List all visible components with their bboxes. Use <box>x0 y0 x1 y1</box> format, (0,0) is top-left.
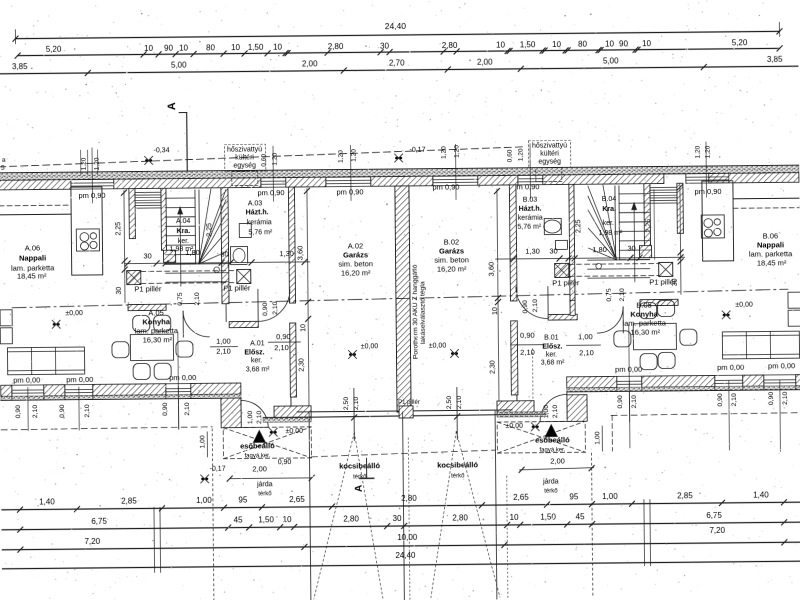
svg-text:A: A <box>166 102 178 110</box>
svg-text:2,25: 2,25 <box>206 223 213 237</box>
svg-text:2,10: 2,10 <box>579 348 594 357</box>
bottom wall left insulation <box>1 394 241 400</box>
svg-text:2,65: 2,65 <box>513 493 529 502</box>
kitchen chairs right <box>614 331 631 347</box>
level marker garage right <box>450 349 458 357</box>
carport dotted edge right2 <box>507 476 508 599</box>
svg-text:1,20: 1,20 <box>81 157 88 170</box>
svg-text:hőszivattyú: hőszivattyú <box>227 146 262 153</box>
entry door arc right <box>540 394 567 421</box>
svg-text:kültéri: kültéri <box>235 154 254 161</box>
svg-text:egység: egység <box>538 158 561 165</box>
svg-text:pm 0,90: pm 0,90 <box>512 182 539 191</box>
svg-text:-0,17: -0,17 <box>210 466 226 473</box>
svg-text:1,20: 1,20 <box>338 150 345 163</box>
svg-text:±0,00: ±0,00 <box>735 302 753 309</box>
armchairs left <box>0 310 12 326</box>
porch wall L right <box>567 395 587 422</box>
svg-text:2,25: 2,25 <box>115 222 122 236</box>
svg-text:30: 30 <box>393 514 403 523</box>
beam dashed left <box>141 270 237 273</box>
svg-text:2,25: 2,25 <box>575 219 582 233</box>
svg-text:pm 0,00: pm 0,00 <box>66 375 93 384</box>
kitchen window axis line <box>177 332 180 429</box>
garage front slab line <box>263 414 546 418</box>
pantry wall stub left <box>129 189 135 239</box>
extension lines bottom left pair <box>153 507 156 572</box>
svg-text:1,20: 1,20 <box>351 149 358 162</box>
svg-text:térkő: térkő <box>451 473 465 479</box>
svg-text:2,10: 2,10 <box>194 292 201 306</box>
svg-text:B.06: B.06 <box>763 231 779 240</box>
svg-text:ker.: ker. <box>251 357 262 364</box>
svg-text:±0,00: ±0,00 <box>505 423 523 430</box>
svg-text:2,10: 2,10 <box>631 395 638 409</box>
svg-text:95: 95 <box>238 495 248 504</box>
svg-text:2,10: 2,10 <box>520 348 535 357</box>
svg-text:járda: járda <box>542 478 559 485</box>
svg-text:5,00: 5,00 <box>603 56 619 65</box>
bottom wall left masonry <box>1 385 12 396</box>
svg-text:0,60: 0,60 <box>261 154 268 167</box>
bottom window axis lines <box>27 388 29 431</box>
svg-text:10: 10 <box>231 43 241 52</box>
carport dotted right of divider <box>408 438 410 600</box>
armchairs right <box>788 292 800 308</box>
svg-text:10: 10 <box>496 40 506 49</box>
svg-text:kerámia: kerámia <box>247 219 272 226</box>
svg-text:A.04: A.04 <box>176 218 191 225</box>
garage A.02 front lines <box>297 410 399 413</box>
svg-text:kerámia: kerámia <box>518 215 543 222</box>
svg-text:0,90: 0,90 <box>768 392 775 406</box>
pantry shelves left <box>135 191 162 193</box>
svg-text:24,40: 24,40 <box>395 551 416 560</box>
svg-text:fagyá.ker.: fagyá.ker. <box>539 447 565 453</box>
svg-text:7,20: 7,20 <box>709 526 725 535</box>
garage A.02 dim line 3,60 <box>307 189 309 413</box>
bottom wall left windows <box>12 384 44 386</box>
svg-text:10,00: 10,00 <box>397 533 418 542</box>
svg-text:±0,00: ±0,00 <box>429 343 447 350</box>
bottom wall right insulation <box>567 386 800 392</box>
eaves dashed vertical right <box>611 415 613 450</box>
dim 1,00 porch right <box>601 426 603 451</box>
svg-text:1,50: 1,50 <box>258 515 274 524</box>
porch wall L left <box>221 398 241 428</box>
svg-text:Elősz.: Elősz. <box>542 343 562 350</box>
svg-text:2,00: 2,00 <box>302 59 318 68</box>
kitchen counter right vertical <box>702 181 734 261</box>
svg-text:1,20: 1,20 <box>695 145 702 158</box>
svg-text:pm 0,00: pm 0,00 <box>615 365 642 374</box>
stove right <box>701 215 724 238</box>
svg-text:1,80: 1,80 <box>592 245 607 254</box>
svg-text:16,30 m²: 16,30 m² <box>143 335 173 344</box>
svg-text:0,90: 0,90 <box>59 404 66 418</box>
svg-text:5,76 m²: 5,76 m² <box>517 224 541 231</box>
svg-text:0,90: 0,90 <box>522 300 529 314</box>
svg-text:-0,34: -0,34 <box>154 147 170 154</box>
svg-text:30: 30 <box>380 42 390 51</box>
svg-text:10: 10 <box>179 44 189 53</box>
level marker living right <box>722 311 730 319</box>
svg-text:1,00: 1,00 <box>196 496 212 505</box>
level marker garage left <box>348 350 356 358</box>
svg-text:Nappali: Nappali <box>19 253 46 262</box>
svg-text:45: 45 <box>234 516 244 525</box>
stair B.04 center rail <box>614 186 617 260</box>
svg-text:2,00: 2,00 <box>252 464 267 473</box>
svg-text:2,10: 2,10 <box>184 402 191 416</box>
stair A.04 right wall <box>221 188 229 304</box>
svg-text:10: 10 <box>492 307 499 315</box>
svg-text:1,00: 1,00 <box>602 492 618 501</box>
svg-text:2,00: 2,00 <box>477 58 493 67</box>
top exterior wall masonry <box>0 180 71 190</box>
party wall Porotherm <box>395 186 411 412</box>
svg-text:5,20: 5,20 <box>732 38 748 47</box>
door trace dotted B.01 <box>531 349 533 399</box>
svg-text:2,80: 2,80 <box>452 513 468 522</box>
svg-text:3,85: 3,85 <box>767 55 783 64</box>
door stair-kitchen B arc <box>597 307 623 333</box>
upper cabinet dashed right <box>733 207 799 210</box>
svg-text:1,20: 1,20 <box>94 157 101 170</box>
svg-text:pm 0,00: pm 0,00 <box>13 375 40 384</box>
svg-text:2,30: 2,30 <box>299 358 306 372</box>
svg-text:1,20: 1,20 <box>705 145 712 158</box>
svg-text:2,10: 2,10 <box>552 405 559 419</box>
svg-text:lakáselválasztó tégla: lakáselválasztó tégla <box>419 281 427 344</box>
svg-text:2,70: 2,70 <box>389 58 405 67</box>
svg-text:30: 30 <box>627 244 635 253</box>
svg-text:30: 30 <box>143 251 151 260</box>
svg-text:7,20: 7,20 <box>84 537 100 546</box>
svg-text:kültéri: kültéri <box>540 150 559 157</box>
entry arrow right <box>545 424 557 436</box>
svg-text:3,60: 3,60 <box>295 246 304 261</box>
carport canopy dashed line <box>311 450 495 457</box>
svg-text:-0,17: -0,17 <box>410 147 426 154</box>
svg-text:egység: egység <box>233 162 256 169</box>
garage B.02 dim line 3,60 <box>497 189 499 411</box>
svg-text:10: 10 <box>605 39 615 48</box>
svg-text:P1 pillér: P1 pillér <box>398 400 420 406</box>
svg-text:2,10: 2,10 <box>256 410 263 424</box>
svg-text:1,30: 1,30 <box>525 247 540 256</box>
svg-text:1,00: 1,00 <box>247 411 254 425</box>
svg-text:2,50: 2,50 <box>446 396 453 410</box>
porch dim 2,00 right <box>520 468 594 470</box>
porch floor left dashes <box>223 427 311 459</box>
svg-text:pm 0,00: pm 0,00 <box>169 373 196 382</box>
svg-text:B.05: B.05 <box>636 301 652 310</box>
toilet B.03 <box>555 240 567 249</box>
threshold block right <box>497 401 534 415</box>
svg-text:18,45 m²: 18,45 m² <box>757 258 787 267</box>
svg-text:3,60: 3,60 <box>487 262 496 277</box>
beam dashed right <box>569 263 659 266</box>
level marker porch right <box>531 423 539 431</box>
svg-text:pm 0,90: pm 0,90 <box>336 187 363 196</box>
porch floor right dashes <box>497 421 585 453</box>
svg-text:2,30: 2,30 <box>490 360 497 374</box>
svg-text:A: A <box>354 485 365 492</box>
svg-text:2,80: 2,80 <box>401 494 417 503</box>
upper cabinet dashed left <box>0 204 71 207</box>
toilet A.03 <box>239 223 251 237</box>
stair B.04 left wall <box>569 184 575 300</box>
svg-text:sim. beton: sim. beton <box>338 259 373 268</box>
svg-text:2,10: 2,10 <box>274 343 289 352</box>
party wall end pillar <box>399 406 413 418</box>
wall A.03/garage A.02 <box>288 187 295 303</box>
svg-text:1,98 m²: 1,98 m² <box>170 246 194 253</box>
svg-text:16,20 m²: 16,20 m² <box>437 264 467 273</box>
svg-text:3,68 m²: 3,68 m² <box>541 359 565 366</box>
svg-text:0,75: 0,75 <box>177 292 184 306</box>
svg-text:kocsibeálló: kocsibeálló <box>437 460 478 469</box>
svg-text:A.03: A.03 <box>248 200 263 207</box>
svg-text:0,90: 0,90 <box>15 405 22 419</box>
svg-text:2,85: 2,85 <box>121 497 137 506</box>
svg-text:hőszivattyú: hőszivattyú <box>532 142 567 149</box>
stair A.04 center rail <box>194 190 197 264</box>
svg-text:ker.: ker. <box>546 351 557 358</box>
section marker A bottom <box>366 458 368 478</box>
svg-text:0,90: 0,90 <box>162 402 169 416</box>
svg-text:kocsibeálló: kocsibeálló <box>339 461 380 470</box>
washbasin B.03 <box>544 220 561 233</box>
svg-text:2,10: 2,10 <box>532 299 539 313</box>
terrain dashed line <box>0 147 524 167</box>
svg-text:2,85: 2,85 <box>677 491 693 500</box>
dim chain bottom 2 <box>2 522 800 530</box>
svg-text:1,50: 1,50 <box>540 513 556 522</box>
svg-text:1,00: 1,00 <box>594 431 601 445</box>
svg-text:Kra.: Kra. <box>602 206 616 213</box>
P1 pillar left a <box>127 270 141 284</box>
svg-text:±0,00: ±0,00 <box>65 310 83 317</box>
stair B.04 right wall <box>644 184 651 246</box>
stair B.04 winders <box>588 186 617 260</box>
svg-text:5,76 m²: 5,76 m² <box>248 229 272 236</box>
svg-text:24,40: 24,40 <box>385 21 407 31</box>
kitchen counter top-left <box>0 213 71 216</box>
svg-text:a: a <box>2 157 6 164</box>
svg-text:5,20: 5,20 <box>46 45 62 54</box>
stair A.04 left wall <box>161 188 167 250</box>
svg-text:lam. parketta: lam. parketta <box>749 249 793 258</box>
svg-text:P1 pillér: P1 pillér <box>223 283 251 292</box>
dim -0,17 porch <box>201 475 209 483</box>
svg-text:1,20: 1,20 <box>454 145 461 158</box>
svg-text:10: 10 <box>510 513 520 522</box>
svg-text:2,10: 2,10 <box>84 404 91 418</box>
svg-text:Elősz.: Elősz. <box>244 349 264 356</box>
svg-text:Porotherm 30 AKU Z hanggátló: Porotherm 30 AKU Z hanggátló <box>412 264 420 359</box>
top wall windows <box>71 178 114 180</box>
svg-text:45: 45 <box>576 512 586 521</box>
porch dim 2,00 left <box>230 477 312 480</box>
carport edge left <box>309 413 311 601</box>
washbasin A.03 <box>230 246 247 264</box>
svg-text:2,10: 2,10 <box>731 393 738 407</box>
entry door arc left <box>241 400 268 427</box>
svg-text:ker.: ker. <box>178 238 189 245</box>
svg-text:1,40: 1,40 <box>39 497 55 506</box>
svg-text:30: 30 <box>116 287 123 295</box>
svg-text:P1 pillér: P1 pillér <box>134 284 162 293</box>
svg-text:lam. parketta: lam. parketta <box>623 318 667 327</box>
section marker A top <box>179 113 187 177</box>
interior dim chain right y260 <box>496 257 685 259</box>
svg-text:10: 10 <box>283 515 293 524</box>
svg-text:1,30: 1,30 <box>279 249 294 258</box>
svg-text:Házt.h.: Házt.h. <box>519 206 542 213</box>
svg-text:±0,00: ±0,00 <box>361 343 379 350</box>
svg-text:0,90: 0,90 <box>278 459 292 466</box>
svg-text:pm 0,00: pm 0,00 <box>768 361 795 370</box>
svg-text:1,20: 1,20 <box>441 146 448 159</box>
svg-text:járda: járda <box>256 481 273 488</box>
svg-text:Konyha: Konyha <box>142 317 170 326</box>
level line dash-dot <box>12 289 788 307</box>
svg-text:2,25: 2,25 <box>645 219 652 233</box>
wall B.01/garage B.02 <box>511 321 518 395</box>
dim chain bottom 1 <box>2 502 800 510</box>
P1 pillar left b <box>237 269 251 283</box>
svg-text:95: 95 <box>569 492 579 501</box>
svg-text:Házt.h.: Házt.h. <box>246 209 269 216</box>
dim 2,25 left a <box>124 191 125 303</box>
wall A.01 north <box>229 321 258 327</box>
svg-text:30: 30 <box>220 250 228 259</box>
carport divider <box>403 412 405 600</box>
interior dim chain left y261 <box>125 262 310 264</box>
dim chain top detail <box>18 48 780 55</box>
svg-text:pm 0,90: pm 0,90 <box>432 182 459 191</box>
porch left edge lines <box>240 398 242 427</box>
wall kitchen/stair right <box>640 299 678 305</box>
svg-text:80: 80 <box>578 40 588 49</box>
carport V right <box>429 431 458 597</box>
level marker -0,17 top <box>395 154 403 162</box>
extension lines bottom right pair <box>643 500 646 566</box>
kitchen counter top-right <box>733 197 799 200</box>
stair B.04 walk line arrow <box>633 203 636 282</box>
svg-text:1,40: 1,40 <box>753 490 769 499</box>
stair corner pillar right <box>639 246 651 258</box>
carport dotted line right <box>591 453 592 598</box>
wall kitchen/stair left <box>128 304 166 310</box>
svg-text:B.03: B.03 <box>523 197 538 204</box>
door A.03 arc <box>258 289 290 321</box>
carport dotted line left <box>212 429 214 602</box>
dim 2,25 right b <box>680 185 681 294</box>
kitchen table left <box>130 334 173 360</box>
svg-text:lam. parketta: lam. parketta <box>135 326 179 335</box>
carport V left <box>312 432 356 598</box>
stair A.04 walk line arrow <box>179 207 182 286</box>
svg-text:A.06: A.06 <box>25 243 41 252</box>
svg-text:90: 90 <box>164 44 174 53</box>
svg-text:0,90: 0,90 <box>520 331 535 340</box>
svg-text:A.01: A.01 <box>250 340 265 347</box>
svg-text:6,75: 6,75 <box>706 511 722 520</box>
svg-text:90: 90 <box>619 39 629 48</box>
P1 pillar right a <box>555 263 569 277</box>
wall B.03/garage B.02 <box>509 185 517 301</box>
svg-text:0,90: 0,90 <box>717 393 724 407</box>
kitchen counter left vertical <box>71 187 103 275</box>
svg-text:1,20: 1,20 <box>518 148 525 161</box>
kitchen table right <box>633 323 676 349</box>
garage B.02 front lines <box>411 409 512 412</box>
svg-text:16,20 m²: 16,20 m² <box>341 268 371 277</box>
door B.03 arc <box>516 287 548 319</box>
svg-text:3,85: 3,85 <box>12 62 28 71</box>
dim chain top second <box>0 66 798 74</box>
svg-text:2,65: 2,65 <box>289 495 305 504</box>
sofa left <box>7 347 84 375</box>
svg-text:2,10: 2,10 <box>32 405 39 419</box>
door stair-kitchen A arc <box>183 311 209 337</box>
svg-text:1,98 m²: 1,98 m² <box>598 230 622 237</box>
bottom wall right masonry <box>567 376 617 387</box>
svg-text:10: 10 <box>144 44 154 53</box>
svg-text:A.02: A.02 <box>348 241 364 250</box>
level marker -0,34 <box>145 156 153 164</box>
svg-text:P1 pillér: P1 pillér <box>552 278 580 287</box>
stair corner pillar left <box>164 250 176 262</box>
svg-text:1,50: 1,50 <box>248 43 264 52</box>
svg-text:térkő: térkő <box>544 488 558 494</box>
svg-text:0,90: 0,90 <box>617 395 624 409</box>
svg-text:16,30 m²: 16,30 m² <box>630 328 660 337</box>
P1 pillar right b <box>659 262 673 276</box>
svg-text:pm 0,90: pm 0,90 <box>694 187 721 196</box>
svg-text:2,10: 2,10 <box>619 288 626 302</box>
svg-text:P1 pillér: P1 pillér <box>649 277 677 286</box>
svg-text:10: 10 <box>273 43 283 52</box>
svg-text:fagyá.ker.: fagyá.ker. <box>244 453 270 459</box>
dim chain bottom 3 <box>2 542 800 550</box>
wall A.01/garage A.02 <box>290 323 297 397</box>
svg-text:10: 10 <box>642 39 652 48</box>
svg-text:0,90: 0,90 <box>262 302 269 316</box>
svg-text:0,60: 0,60 <box>507 149 514 162</box>
dim chain total 24,40 top <box>15 31 779 38</box>
porch right edge lines <box>566 392 568 421</box>
stair B.04 lower treads <box>588 259 650 262</box>
svg-text:1,20: 1,20 <box>272 152 279 165</box>
level marker living left <box>52 320 60 328</box>
eaves dashed line right <box>611 413 800 416</box>
svg-text:pm 0,00: pm 0,00 <box>717 363 744 372</box>
svg-text:80: 80 <box>206 43 216 52</box>
stove left <box>76 229 99 251</box>
svg-text:10: 10 <box>300 324 307 332</box>
stair A.04 treads <box>165 197 195 199</box>
svg-text:2,00: 2,00 <box>550 456 565 465</box>
svg-text:Garázs: Garázs <box>343 250 368 259</box>
svg-text:2,80: 2,80 <box>343 514 359 523</box>
threshold block left <box>274 406 311 420</box>
kitchen chairs left <box>112 342 129 358</box>
svg-text:Nappali: Nappali <box>757 240 784 249</box>
